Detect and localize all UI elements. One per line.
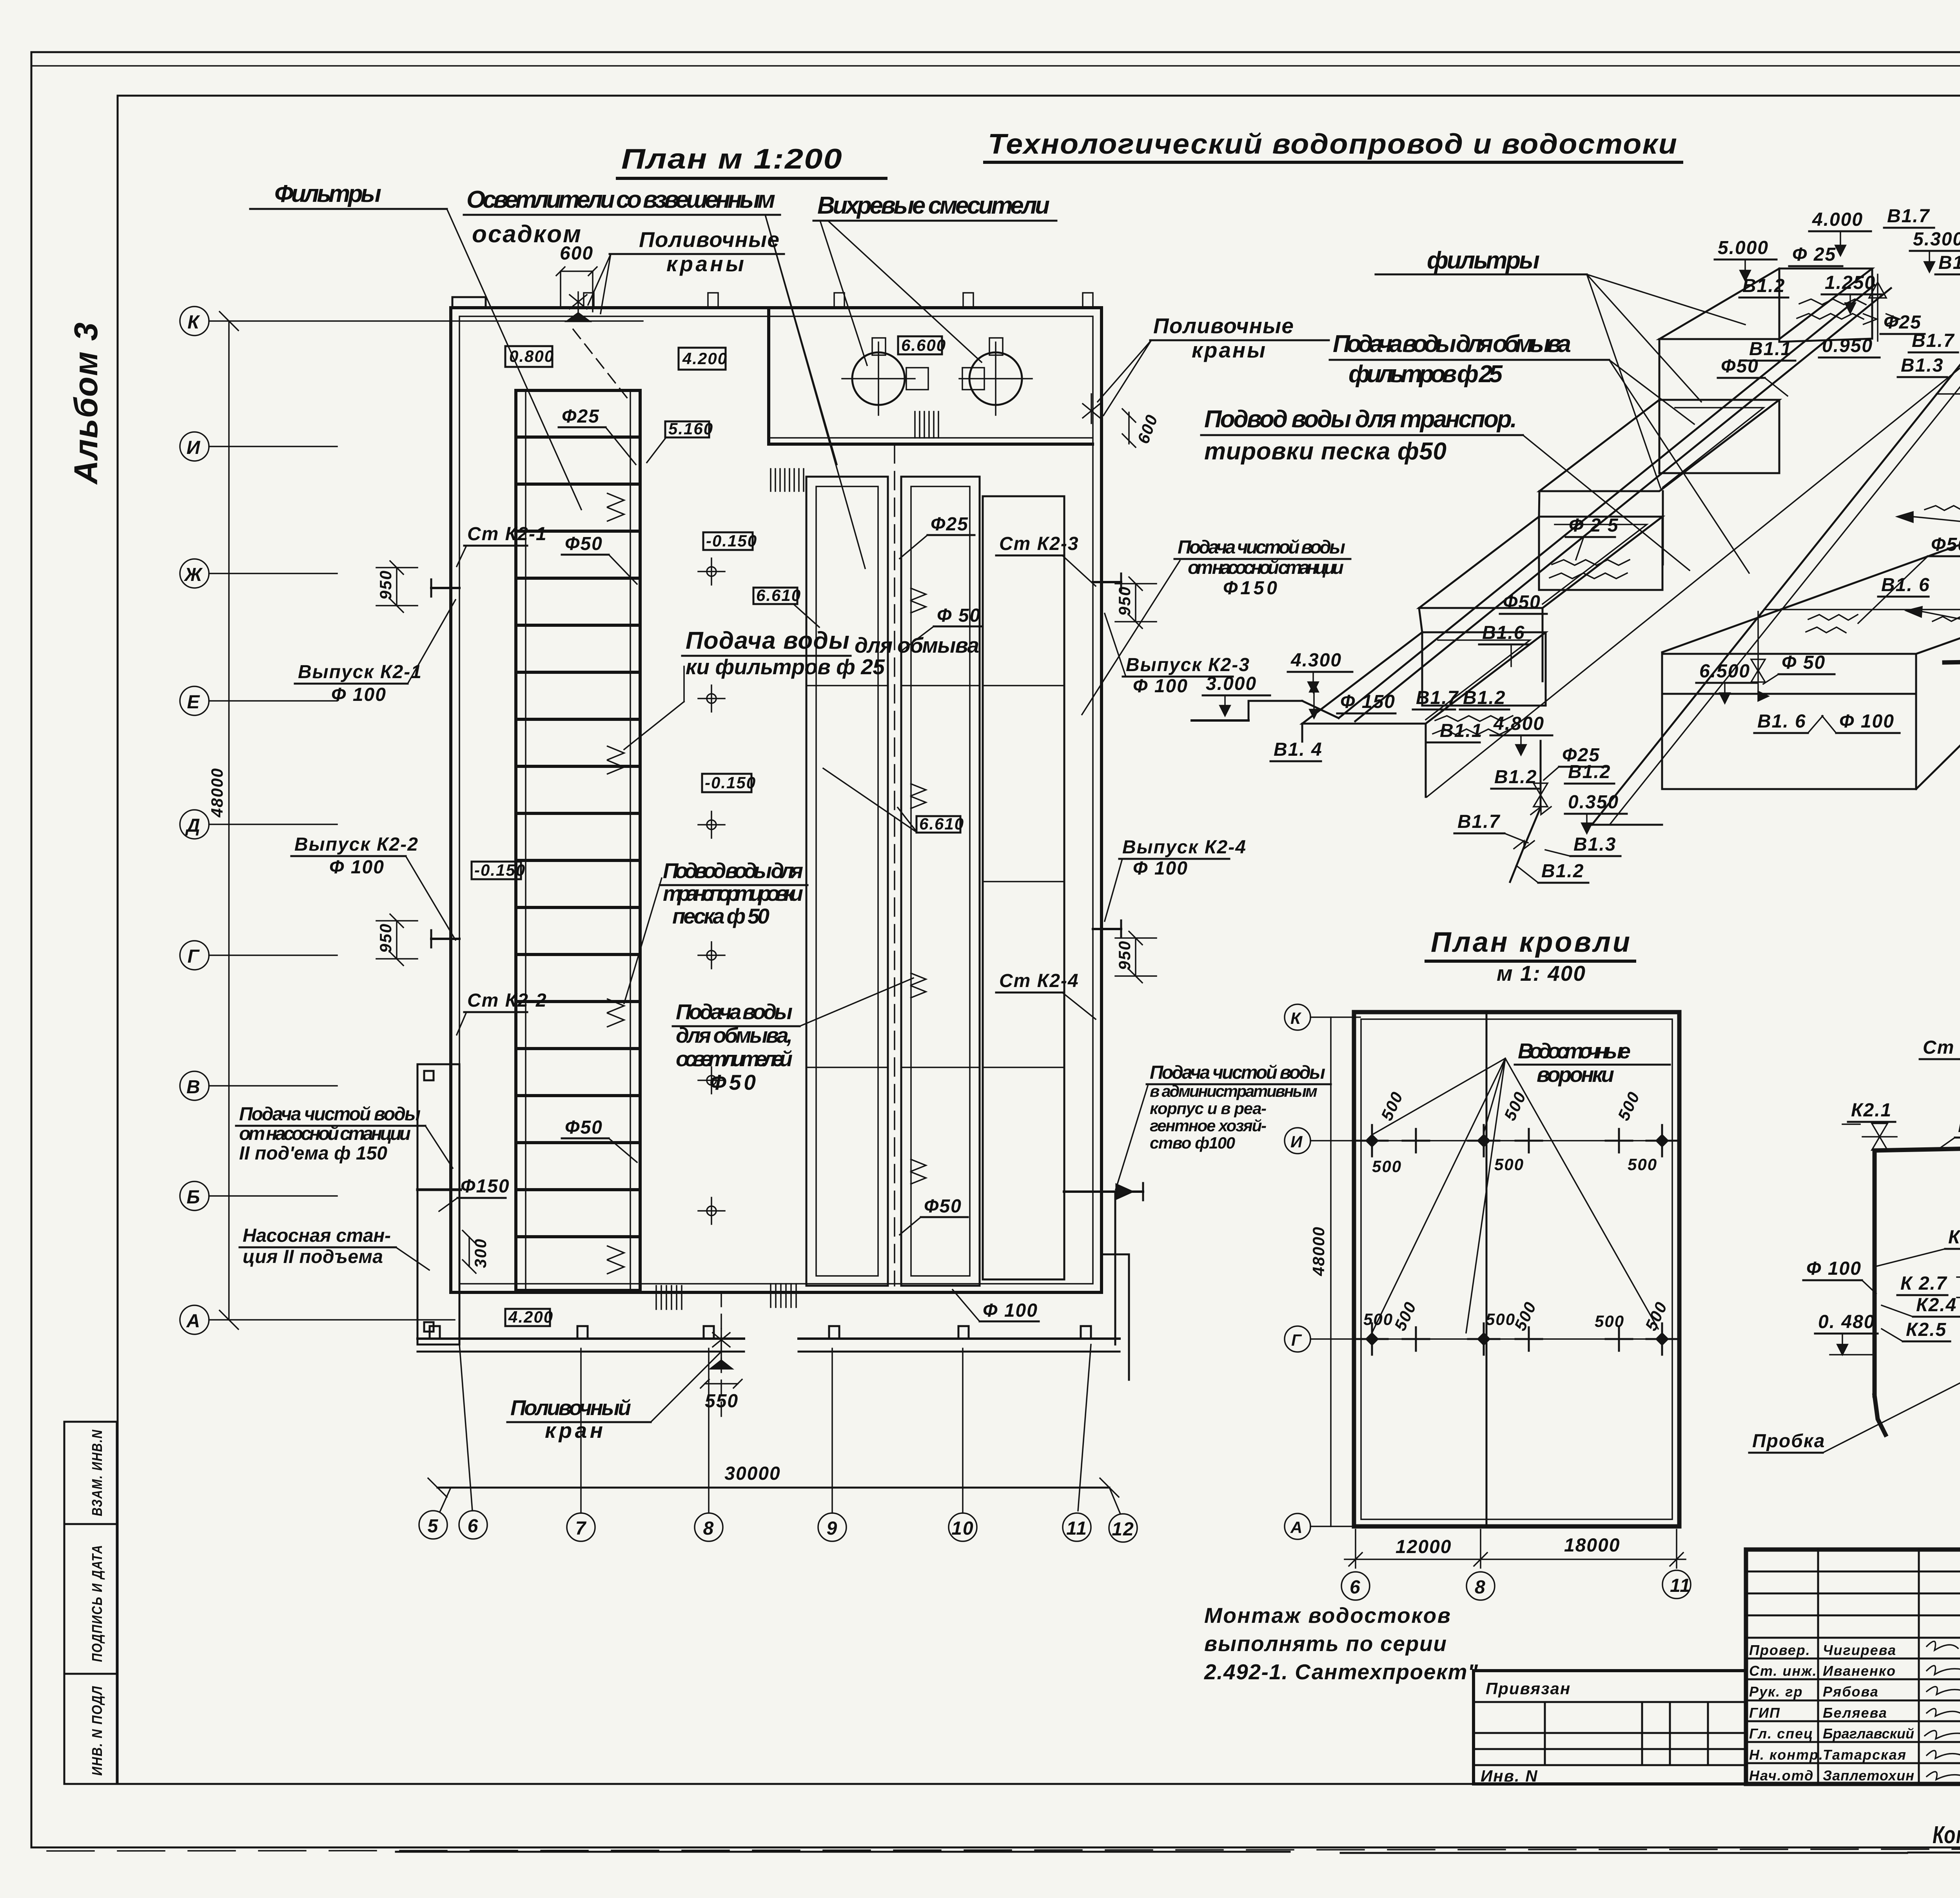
dim 950 right b bbox=[1115, 931, 1156, 983]
svg-text:500: 500 bbox=[1614, 1089, 1644, 1123]
central pipe dashed bbox=[894, 445, 895, 1286]
svg-text:500: 500 bbox=[1595, 1312, 1624, 1330]
svg-text:гентное хозяй-: гентное хозяй- bbox=[1150, 1116, 1267, 1135]
svg-text:для обмыва: для обмыва bbox=[855, 633, 980, 657]
bottom dims roof bbox=[1345, 1530, 1686, 1568]
foundation strips below building bbox=[417, 1326, 1120, 1352]
drain outlet k2-1 bbox=[431, 579, 459, 597]
drain outlet k2-2 bbox=[431, 930, 459, 947]
svg-text:Провер.: Провер. bbox=[1749, 1642, 1811, 1658]
privyazan table bbox=[1474, 1671, 1746, 1784]
gallery 3 bbox=[983, 496, 1064, 1279]
svg-text:6: 6 bbox=[1350, 1577, 1361, 1598]
svg-text:В1. 6: В1. 6 bbox=[1881, 575, 1930, 595]
svg-text:Подача воды для обмыва: Подача воды для обмыва bbox=[1333, 330, 1572, 357]
svg-text:Осветлители со взвешенным: Осветлители со взвешенным bbox=[466, 186, 776, 213]
svg-text:Ф 100: Ф 100 bbox=[1133, 858, 1188, 879]
svg-text:Ф25: Ф25 bbox=[562, 406, 600, 427]
svg-text:8: 8 bbox=[703, 1518, 715, 1539]
svg-text:А: А bbox=[186, 1311, 201, 1332]
vortex mixer 1 bbox=[852, 352, 905, 405]
right wall drain stacks bbox=[1093, 573, 1121, 591]
elevation 6.600 box bbox=[898, 336, 942, 354]
dashed axis bottom bbox=[720, 1292, 722, 1419]
svg-text:950: 950 bbox=[1115, 940, 1134, 970]
dim 300 bbox=[463, 1230, 476, 1273]
svg-text:Н. контр.: Н. контр. bbox=[1749, 1747, 1824, 1763]
svg-text:фильтры: фильтры bbox=[1427, 247, 1541, 274]
svg-text:3.000: 3.000 bbox=[1206, 673, 1257, 694]
svg-text:Подача чистой воды: Подача чистой воды bbox=[239, 1104, 421, 1125]
extra long diagonal along cell bottoms bbox=[1427, 359, 1960, 797]
svg-text:Иваненко: Иваненко bbox=[1823, 1663, 1896, 1679]
svg-text:В1.2: В1.2 bbox=[1541, 861, 1584, 882]
svg-text:Ф 50: Ф 50 bbox=[937, 605, 981, 626]
svg-text:Ф 100: Ф 100 bbox=[331, 684, 387, 705]
filter cell D bbox=[1659, 269, 1872, 342]
svg-text:II под'ема ф 150: II под'ема ф 150 bbox=[239, 1143, 388, 1164]
svg-text:600: 600 bbox=[560, 243, 593, 264]
filter cell C bbox=[1539, 400, 1779, 564]
svg-text:В1. 6: В1. 6 bbox=[1757, 711, 1806, 732]
dim 950 left b bbox=[376, 914, 417, 965]
svg-text:Монтаж водостоков: Монтаж водостоков bbox=[1204, 1603, 1451, 1628]
svg-text:Ф50: Ф50 bbox=[1503, 592, 1541, 613]
svg-text:11: 11 bbox=[1066, 1518, 1087, 1539]
svg-text:Поливочные: Поливочные bbox=[639, 227, 780, 252]
top-right channel end riser bbox=[1863, 274, 1900, 341]
svg-text:К2.1: К2.1 bbox=[1851, 1100, 1892, 1121]
svg-text:В: В bbox=[187, 1077, 201, 1098]
svg-text:-0.150: -0.150 bbox=[705, 773, 756, 792]
bottom scan edge bbox=[47, 1849, 1960, 1851]
svg-text:Насосная стан-: Насосная стан- bbox=[243, 1225, 392, 1246]
svg-text:Подвод воды для транспор.: Подвод воды для транспор. bbox=[1204, 406, 1518, 433]
left name columns bbox=[1818, 1550, 1960, 1784]
svg-text:18000: 18000 bbox=[1564, 1535, 1620, 1556]
svg-text:К2.4: К2.4 bbox=[1916, 1295, 1957, 1316]
svg-text:0.350: 0.350 bbox=[1568, 792, 1619, 813]
svg-text:В1.3: В1.3 bbox=[1901, 355, 1944, 376]
svg-text:от насосной станции: от насосной станции bbox=[1188, 557, 1345, 578]
svg-text:4.200: 4.200 bbox=[682, 349, 728, 368]
svg-text:300: 300 bbox=[471, 1238, 490, 1268]
roof outline bbox=[1354, 1012, 1679, 1526]
svg-text:2.492-1. Сантехпроект": 2.492-1. Сантехпроект" bbox=[1204, 1660, 1479, 1684]
svg-text:Д: Д bbox=[185, 815, 201, 836]
svg-text:В1.7: В1.7 bbox=[1416, 688, 1459, 708]
svg-text:Копировал. Подлевская: Копировал. Подлевская bbox=[1933, 1822, 1960, 1849]
svg-text:6: 6 bbox=[468, 1516, 479, 1537]
left sub riser k2-2 bbox=[1873, 1150, 1877, 1395]
svg-text:выполнять по серии: выполнять по серии bbox=[1204, 1631, 1447, 1656]
svg-text:Ф 150: Ф 150 bbox=[1340, 691, 1396, 712]
svg-text:Ф 100: Ф 100 bbox=[1133, 676, 1188, 697]
svg-text:5: 5 bbox=[428, 1516, 439, 1537]
svg-text:5.000: 5.000 bbox=[1718, 238, 1769, 258]
svg-text:Ф 50: Ф 50 bbox=[1782, 652, 1826, 673]
svg-text:Подвод воды для: Подвод воды для bbox=[663, 858, 804, 883]
elevation box 4.200 bbox=[679, 348, 726, 370]
roof inner line bbox=[1610, 288, 1960, 825]
riser arrows bbox=[1310, 683, 1318, 718]
svg-text:Г: Г bbox=[187, 946, 200, 967]
svg-text:Ст. инж.: Ст. инж. bbox=[1749, 1663, 1817, 1679]
svg-text:10: 10 bbox=[951, 1518, 974, 1539]
svg-text:Б: Б bbox=[187, 1187, 201, 1208]
dim 950 right a bbox=[1115, 577, 1156, 628]
svg-text:500: 500 bbox=[1494, 1155, 1524, 1174]
elevation box 0.800 bbox=[505, 346, 552, 367]
svg-text:Гл. спец: Гл. спец bbox=[1749, 1726, 1813, 1742]
svg-text:Рябова: Рябова bbox=[1823, 1684, 1879, 1700]
top border doubled bbox=[31, 65, 1960, 67]
svg-text:фильтров ф 25: фильтров ф 25 bbox=[1348, 361, 1503, 388]
funnel leaders bbox=[1372, 1058, 1658, 1333]
svg-text:Ст К2-3: Ст К2-3 bbox=[999, 533, 1079, 554]
box roof diagonal bbox=[1662, 442, 1960, 652]
svg-text:4.300: 4.300 bbox=[1290, 650, 1342, 671]
sub riser bottom tail bbox=[1875, 1395, 1886, 1435]
svg-text:Инв. N: Инв. N bbox=[1481, 1767, 1538, 1785]
wall pilasters top bbox=[584, 293, 1093, 308]
svg-text:ВЗАМ. ИНВ.N: ВЗАМ. ИНВ.N bbox=[89, 1429, 105, 1516]
svg-text:48000: 48000 bbox=[208, 768, 226, 818]
svg-text:воронки: воронки bbox=[1537, 1062, 1615, 1087]
svg-text:осветлителей: осветлителей bbox=[676, 1047, 793, 1071]
svg-text:Ст К2-2: Ст К2-2 bbox=[467, 990, 547, 1011]
svg-text:ГИП: ГИП bbox=[1749, 1705, 1780, 1721]
svg-text:Ф 100: Ф 100 bbox=[1839, 711, 1895, 732]
svg-text:К2. 2: К2. 2 bbox=[1958, 1116, 1960, 1136]
svg-text:950: 950 bbox=[376, 923, 395, 953]
svg-text:Ф 100: Ф 100 bbox=[1806, 1258, 1862, 1279]
gallery 2 bbox=[901, 477, 980, 1286]
svg-text:30000: 30000 bbox=[724, 1463, 780, 1484]
600 dim right bbox=[1122, 409, 1136, 447]
grid letters bbox=[183, 312, 203, 1332]
48000 dim roof bbox=[1330, 1017, 1332, 1526]
column cross symbols in corridor bbox=[698, 558, 725, 1224]
ladder rungs bbox=[517, 437, 639, 1237]
svg-text:ство ф100: ство ф100 bbox=[1150, 1134, 1236, 1152]
outer wall rect bbox=[451, 308, 1102, 1292]
svg-text:Подача чистой воды: Подача чистой воды bbox=[1150, 1062, 1326, 1083]
svg-text:План кровли: План кровли bbox=[1431, 927, 1631, 958]
svg-text:В1.3: В1.3 bbox=[1573, 834, 1616, 855]
svg-text:Беляева: Беляева bbox=[1823, 1705, 1887, 1721]
svg-text:Поливочные: Поливочные bbox=[1153, 314, 1294, 338]
Г line bbox=[1354, 1338, 1679, 1340]
elevation -0.150 left bbox=[472, 862, 521, 879]
elevation 4.200 bottom bbox=[505, 1309, 550, 1326]
svg-text:1.250: 1.250 bbox=[1825, 272, 1876, 293]
svg-text:Ф25: Ф25 bbox=[931, 514, 969, 535]
svg-text:0. 480: 0. 480 bbox=[1818, 1312, 1875, 1332]
svg-text:Ст К2-1: Ст К2-1 bbox=[467, 524, 547, 544]
title block outer bbox=[1746, 1550, 1960, 1784]
svg-text:Г: Г bbox=[1291, 1331, 1302, 1349]
svg-text:ки фильтров ф 25: ки фильтров ф 25 bbox=[686, 655, 886, 679]
svg-text:В1.7: В1.7 bbox=[1887, 206, 1930, 227]
550 dim bbox=[701, 1379, 742, 1388]
svg-text:Вихревые смесители: Вихревые смесители bbox=[817, 192, 1051, 219]
f50 valve pipe at box bbox=[1751, 611, 1768, 701]
svg-text:Выпуск К2-4: Выпуск К2-4 bbox=[1122, 837, 1247, 858]
svg-text:В1.7: В1.7 bbox=[1457, 811, 1501, 832]
svg-text:6.600: 6.600 bbox=[901, 336, 946, 354]
svg-text:Заплетохин: Заплетохин bbox=[1823, 1767, 1915, 1784]
elevation 6.610 a bbox=[753, 588, 797, 604]
grid bubbles roof bbox=[1285, 1004, 1360, 1539]
svg-text:0.950: 0.950 bbox=[1822, 336, 1873, 356]
cell B squiggle bbox=[1550, 560, 1630, 579]
svg-text:Поливочный: Поливочный bbox=[510, 1395, 632, 1420]
left rows bbox=[1746, 1571, 1960, 1763]
mixer stubs bbox=[872, 338, 1003, 390]
svg-text:12000: 12000 bbox=[1396, 1537, 1452, 1557]
box depth edges bbox=[1916, 632, 1960, 789]
svg-text:В1.2: В1.2 bbox=[1742, 276, 1785, 296]
svg-text:Ф50: Ф50 bbox=[924, 1196, 962, 1217]
svg-text:500: 500 bbox=[1372, 1157, 1402, 1176]
svg-text:Подача воды: Подача воды bbox=[676, 1000, 793, 1024]
svg-text:Ф50: Ф50 bbox=[1931, 534, 1960, 555]
svg-text:ПОДПИСЬ И ДАТА: ПОДПИСЬ И ДАТА bbox=[89, 1544, 105, 1662]
svg-text:ИНВ. N ПОДЛ: ИНВ. N ПОДЛ bbox=[89, 1686, 105, 1776]
svg-text:В1.1: В1.1 bbox=[1440, 720, 1483, 741]
svg-text:500: 500 bbox=[1628, 1155, 1657, 1174]
svg-text:Ф 100: Ф 100 bbox=[983, 1300, 1038, 1321]
svg-text:Ф50: Ф50 bbox=[565, 1117, 603, 1138]
svg-text:Технологический водопровод и: Технологический водопровод и водостоки bbox=[988, 129, 1678, 160]
svg-text:Ф 100: Ф 100 bbox=[329, 857, 385, 878]
svg-text:И: И bbox=[187, 437, 201, 458]
svg-text:Браглавский: Браглавский bbox=[1823, 1726, 1915, 1742]
svg-text:500: 500 bbox=[1363, 1310, 1393, 1328]
svg-text:4.200: 4.200 bbox=[508, 1308, 554, 1326]
svg-text:В1.2: В1.2 bbox=[1463, 688, 1506, 708]
48000 vertical dimension bbox=[228, 321, 230, 1320]
svg-text:К2.5: К2.5 bbox=[1906, 1319, 1947, 1340]
svg-text:Рук. гр: Рук. гр bbox=[1749, 1684, 1803, 1700]
svg-text:К 2.7: К 2.7 bbox=[1900, 1273, 1947, 1294]
svg-text:В1.2: В1.2 bbox=[1494, 767, 1537, 788]
svg-text:11: 11 bbox=[1670, 1575, 1691, 1596]
svg-text:Ф 25: Ф 25 bbox=[1792, 244, 1836, 265]
funnels on Г line bbox=[1356, 1323, 1678, 1355]
svg-text:Фильтры: Фильтры bbox=[274, 180, 382, 207]
svg-text:В1.2: В1.2 bbox=[1938, 252, 1960, 273]
svg-text:м 1: 400: м 1: 400 bbox=[1497, 961, 1586, 985]
dim 950 left a bbox=[376, 561, 417, 612]
svg-text:48000: 48000 bbox=[1309, 1226, 1328, 1276]
svg-text:Ф150: Ф150 bbox=[1223, 578, 1278, 599]
svg-text:4.000: 4.000 bbox=[1812, 209, 1863, 230]
svg-text:Ж: Ж bbox=[183, 564, 203, 585]
svg-text:Е: Е bbox=[187, 692, 200, 713]
name rows text bbox=[1749, 1642, 1915, 1784]
svg-text:Ст К2-4: Ст К2-4 bbox=[999, 971, 1079, 991]
bottom-right annex bbox=[1102, 1192, 1129, 1380]
svg-text:6.610: 6.610 bbox=[919, 815, 964, 833]
grid letter bubbles column bbox=[180, 307, 643, 1334]
svg-text:Чигирева: Чигирева bbox=[1823, 1642, 1896, 1658]
svg-text:песка ф 50: песка ф 50 bbox=[672, 904, 770, 928]
svg-text:Пробка: Пробка bbox=[1752, 1431, 1826, 1452]
signatures bbox=[1925, 1641, 1960, 1780]
pump station annex bottom-left bbox=[417, 1064, 461, 1345]
svg-text:-0.150: -0.150 bbox=[706, 532, 757, 550]
elevation -0.150 a bbox=[703, 532, 753, 550]
svg-text:5.300: 5.300 bbox=[1913, 229, 1960, 250]
svg-text:В1.2: В1.2 bbox=[1568, 762, 1611, 782]
elevation 6.610 b bbox=[916, 816, 960, 833]
vortex mixer 2 bbox=[969, 352, 1022, 405]
svg-text:краны: краны bbox=[1192, 338, 1266, 362]
svg-text:Подача чистой воды: Подача чистой воды bbox=[1178, 537, 1346, 558]
svg-text:Ст К2-1: Ст К2-1 bbox=[1923, 1037, 1960, 1058]
svg-text:8: 8 bbox=[1475, 1577, 1486, 1598]
svg-text:6.610: 6.610 bbox=[756, 586, 801, 604]
tee symbol bbox=[1957, 1277, 1960, 1297]
svg-text:корпус и в реа-: корпус и в реа- bbox=[1150, 1099, 1267, 1118]
funnels on И line bbox=[1356, 1125, 1678, 1156]
tap symbol right wall bbox=[1083, 394, 1100, 423]
ladder valve pairs bbox=[607, 493, 624, 521]
svg-text:Татарская: Татарская bbox=[1823, 1747, 1907, 1763]
svg-text:Ф50: Ф50 bbox=[710, 1070, 757, 1094]
mixer room stairs bbox=[915, 412, 938, 438]
left end corner bbox=[1592, 824, 1662, 826]
svg-text:-0.150: -0.150 bbox=[474, 861, 526, 879]
left stamp column bbox=[64, 1422, 117, 1784]
И line bbox=[1354, 1140, 1679, 1141]
ridge line bbox=[1486, 1012, 1488, 1526]
svg-text:А: А bbox=[1290, 1518, 1303, 1537]
B1.5 step pipe bbox=[1944, 662, 1960, 706]
svg-text:600: 600 bbox=[1134, 412, 1161, 446]
gallery 1 bbox=[806, 477, 888, 1286]
30000 dimension line bbox=[437, 1487, 1109, 1489]
elevation box 5.160 bbox=[665, 421, 709, 437]
svg-text:Альбом 3: Альбом 3 bbox=[67, 322, 104, 485]
svg-text:План м 1:200: План м 1:200 bbox=[621, 143, 843, 175]
svg-text:Выпуск К2-2: Выпуск К2-2 bbox=[294, 834, 419, 855]
svg-text:К: К bbox=[187, 312, 200, 333]
cell step connectors bbox=[1419, 339, 1659, 632]
svg-text:Подача воды: Подача воды bbox=[686, 627, 850, 654]
svg-text:Выпуск К2-3: Выпуск К2-3 bbox=[1126, 655, 1250, 675]
svg-text:7: 7 bbox=[575, 1518, 587, 1539]
svg-text:Ф 2 5: Ф 2 5 bbox=[1569, 515, 1619, 536]
dashed inlet at top-left corner bbox=[573, 329, 631, 403]
elevation -0.150 b bbox=[702, 774, 751, 792]
svg-text:краны: краны bbox=[666, 252, 745, 276]
svg-text:5.160: 5.160 bbox=[668, 419, 713, 438]
cell A squiggle bbox=[1433, 716, 1513, 735]
wall opening top-left protrusion bbox=[452, 297, 486, 308]
svg-text:Выпуск К2-1: Выпуск К2-1 bbox=[298, 662, 422, 682]
svg-text:950: 950 bbox=[376, 570, 395, 600]
svg-text:Ф50: Ф50 bbox=[1721, 356, 1759, 377]
watering tap symbol top-left bbox=[566, 292, 590, 321]
svg-text:Нач.отд: Нач.отд bbox=[1749, 1767, 1814, 1784]
svg-text:Водосточные: Водосточные bbox=[1518, 1039, 1632, 1063]
svg-text:ция II подъема: ция II подъема bbox=[243, 1247, 384, 1267]
svg-text:К: К bbox=[1290, 1009, 1302, 1027]
roof transverse divisions bbox=[1764, 394, 1960, 610]
svg-text:В1.6: В1.6 bbox=[1482, 622, 1525, 643]
channel pair bbox=[1339, 285, 1875, 718]
roof parallelogram bbox=[1592, 288, 1960, 825]
svg-text:Привязан: Привязан bbox=[1486, 1679, 1571, 1698]
cell D squiggles bbox=[1797, 299, 1866, 319]
bottom right pipe bbox=[1064, 1183, 1143, 1200]
svg-text:500: 500 bbox=[1642, 1299, 1671, 1334]
svg-text:0.800: 0.800 bbox=[509, 347, 554, 365]
svg-text:6.500: 6.500 bbox=[1699, 661, 1750, 682]
bottom grid bubbles 5..12 bbox=[419, 1345, 1137, 1542]
mixers room partition bbox=[767, 310, 770, 444]
svg-text:12: 12 bbox=[1112, 1519, 1134, 1540]
stairs hatches bbox=[771, 469, 804, 491]
filter cell B bbox=[1419, 517, 1662, 681]
gallery valves bbox=[910, 588, 926, 1184]
svg-text:К 2.3: К 2.3 bbox=[1948, 1227, 1960, 1248]
svg-text:950: 950 bbox=[1115, 586, 1134, 616]
svg-text:Ф50: Ф50 bbox=[565, 533, 603, 554]
svg-text:И: И bbox=[1290, 1132, 1303, 1151]
filter cell A bbox=[1302, 632, 1546, 797]
svg-text:Ф150: Ф150 bbox=[461, 1176, 510, 1197]
svg-text:9: 9 bbox=[827, 1518, 838, 1539]
svg-text:В1. 4: В1. 4 bbox=[1274, 739, 1323, 760]
svg-text:тировки песка ф50: тировки песка ф50 bbox=[1204, 438, 1447, 465]
